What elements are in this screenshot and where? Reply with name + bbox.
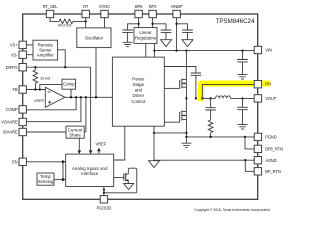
svg-text:and: and [135, 88, 143, 93]
ground agnd triangle [149, 161, 160, 168]
pin BP_RTN [254, 168, 281, 175]
wire VS+ pin to amplifier [27, 44, 34, 46]
wire VS- pin to amplifier [27, 54, 34, 56]
wire ISHARE to current share [27, 131, 67, 133]
wire rail to current share right [84, 97, 86, 132]
wire pgood drain loop [104, 168, 137, 193]
svg-text:Amplifier: Amplifier [37, 52, 55, 57]
svg-text:VREF: VREF [34, 98, 45, 103]
arrow EN into analog inputs [62, 160, 66, 164]
wire pgnd rail right to PGND pin [186, 136, 254, 138]
node pgood junction upper [103, 189, 105, 191]
node VIN cap on rail [241, 49, 243, 51]
wire VREF stub [98, 151, 100, 155]
wire FB net [27, 89, 46, 91]
pin FB [12, 86, 26, 93]
svg-text:Driver: Driver [132, 93, 144, 98]
svg-text:ISHARE: ISHARE [3, 130, 18, 135]
analog inputs and interface block [66, 154, 114, 186]
pin AGND [254, 157, 277, 164]
node switch bootstrap [195, 97, 197, 99]
svg-text:BP6: BP6 [135, 4, 143, 9]
wire EN to analog inputs [27, 161, 64, 163]
capacitor bootstrap [191, 73, 201, 98]
svg-text:PGOOD: PGOOD [96, 206, 111, 211]
node rail current share right [85, 96, 87, 98]
pin PH [254, 81, 271, 88]
ground output cap [238, 125, 248, 129]
wire power stage down to agnd rail [153, 126, 155, 160]
wire FB to comparator [40, 85, 62, 90]
svg-text:COMP: COMP [6, 107, 18, 112]
pin EN [12, 158, 26, 165]
node RT junction [85, 20, 87, 22]
node switch PH riser [201, 97, 203, 99]
node low-side source pgnd [185, 136, 187, 138]
svg-text:VS+: VS+ [10, 43, 18, 48]
wire BP3 pin down to linear regulators [152, 18, 154, 28]
svg-text:RT_SEL: RT_SEL [43, 4, 59, 9]
oscillator block [77, 28, 111, 48]
node PGND BP6_RTN branch [244, 136, 246, 138]
wire EN to temp node [62, 162, 64, 180]
wire power stage bottom to analog inputs [114, 126, 125, 160]
node snubber ground [209, 136, 211, 138]
svg-text:RT: RT [83, 4, 89, 9]
wire RT pin down to oscillator [85, 18, 87, 28]
power stage and driver control block [112, 57, 164, 126]
arrow DIFFO into analog inputs [89, 150, 93, 154]
wire BP6 pin down to linear regulators [138, 18, 140, 28]
resistor 40.2 kOhm [58, 19, 73, 28]
wire SYNC pin down to oscillator [104, 18, 106, 28]
pin SYNC [99, 4, 110, 18]
node DIFFO amplifier [64, 66, 66, 68]
pin BP3 [149, 4, 157, 18]
arrow VREF up [97, 148, 101, 152]
wire DIFFO net [27, 66, 91, 68]
svg-text:VS-: VS- [11, 52, 18, 57]
wire current share to analog inputs [78, 138, 80, 151]
svg-text:Power: Power [132, 76, 145, 81]
arrow current share into analog inputs [78, 150, 82, 154]
svg-text:DIFFO: DIFFO [6, 65, 19, 70]
wire analog to PGOOD pin [103, 187, 105, 196]
wire BP6 branch to cap [128, 24, 139, 30]
wire BP6_RTN to PGND [245, 137, 254, 149]
pin DIFFO [6, 64, 27, 71]
svg-text:BP3: BP3 [149, 4, 157, 9]
pin VSHARE [1, 118, 26, 125]
transistor Q3 PGOOD open drain FET [124, 173, 129, 184]
pin BP6_RTN [254, 145, 283, 152]
pin VS+ [10, 41, 26, 48]
pin VS- [11, 51, 26, 58]
pin COMP [6, 106, 27, 113]
capacitor output [237, 98, 248, 124]
wire agnd rail [154, 159, 254, 161]
svg-text:SYNC: SYNC [99, 4, 110, 9]
capacitor VIN [237, 51, 248, 75]
wire BOOT to bootstrap cap [164, 67, 196, 74]
pin VINBP [171, 4, 183, 18]
ground BP6 cap [123, 42, 133, 46]
pin BP6 [135, 4, 143, 18]
pin VOUT [254, 95, 277, 102]
node AGND BP_RTN branch [244, 159, 246, 161]
svg-text:BP6_RTN: BP6_RTN [265, 147, 283, 152]
module boundary TPSM846C24 [23, 14, 258, 199]
svg-text:AGND: AGND [265, 158, 277, 163]
node VINBP on rail [175, 49, 177, 51]
svg-text:Comp: Comp [63, 82, 75, 87]
svg-text:Sensing: Sensing [38, 179, 54, 184]
wire temp sensing output [54, 179, 63, 181]
node FET drain on rail [185, 49, 187, 51]
comparator block Comp [62, 79, 76, 89]
transistor Q1 high-side FET [180, 51, 187, 99]
ground VINBP cap triangle [182, 40, 193, 47]
wire resistor to RT node [73, 20, 86, 22]
wire low-side gate [164, 121, 179, 123]
svg-text:VINBP: VINBP [171, 4, 183, 9]
op-amp U1 error amplifier [34, 87, 65, 107]
wire linear regulators to power stage left [145, 43, 147, 57]
ground VIN cap [238, 75, 248, 79]
node BP6 branch [137, 23, 139, 25]
node FB comparator branch [39, 88, 41, 90]
node pgnd rail left end [153, 132, 155, 134]
wire amplifier output to DIFFO [58, 50, 66, 67]
node rail oscillator [95, 96, 97, 98]
capacitor BP6 [122, 30, 133, 42]
wire BP3 branch to cap [153, 24, 166, 30]
svg-text:Interface: Interface [81, 171, 99, 176]
node FB resistor [34, 88, 36, 90]
node EN branch [62, 161, 64, 163]
node VIN rail left end [153, 49, 155, 51]
capacitor VINBP [182, 30, 193, 40]
node DIFFO resistor [34, 66, 36, 68]
svg-text:BP_RTN: BP_RTN [265, 169, 281, 174]
svg-text:Stage: Stage [133, 82, 145, 87]
svg-text:VREF: VREF [96, 141, 107, 146]
wire VSHARE riser [27, 97, 81, 121]
wire COMP pin riser [27, 97, 77, 110]
pin RT [82, 4, 89, 18]
linear regulators block [134, 28, 157, 44]
node BP3 branch [151, 23, 153, 25]
wire comp rail op-amp output [65, 96, 112, 98]
capacitor snubber [205, 98, 215, 120]
pin PGOOD [96, 196, 111, 211]
svg-text:VIN: VIN [265, 48, 272, 53]
wire pgnd rail left [154, 132, 186, 134]
node output cap tap [241, 97, 243, 99]
node switch FET source [185, 97, 187, 99]
node rail COMP pin [75, 96, 77, 98]
ground pgood triangle [124, 184, 134, 190]
svg-text:Control: Control [131, 99, 145, 104]
svg-text:VOUT: VOUT [265, 96, 277, 101]
wire RT_SEL to resistor [50, 18, 59, 22]
node rail VSHARE [80, 96, 82, 98]
resistor snubber [208, 120, 213, 137]
node rail comp block [70, 96, 72, 98]
wire high-side gate [164, 87, 179, 89]
pin ISHARE [3, 128, 27, 135]
node VINBP branch [175, 23, 177, 25]
wire BP_RTN to AGND [245, 160, 254, 171]
svg-text:FB: FB [12, 87, 17, 92]
ground BP3 cap triangle [161, 40, 172, 47]
PH net highlight [201, 84, 271, 102]
current share block [66, 126, 84, 138]
svg-text:VSHARE: VSHARE [1, 120, 18, 125]
node pgood junction lower [103, 192, 105, 194]
node snubber tap [209, 97, 211, 99]
svg-text:EN: EN [12, 160, 18, 165]
wire switch node rail with inductor L1 [202, 96, 254, 99]
ground power stage source [181, 137, 191, 148]
wire analog to pgood FET gate [114, 177, 124, 179]
arrow temp into analog inputs [62, 178, 66, 182]
transistor Q2 low-side FET [180, 98, 187, 136]
svg-text:TPSM846C24: TPSM846C24 [216, 18, 255, 25]
wire oscillator to comp rail [95, 48, 97, 98]
temp sensing block [37, 173, 54, 185]
wire VINBP pin down to VIN rail [176, 18, 178, 51]
resistor 10 kOhm [33, 67, 50, 89]
svg-text:Oscillator: Oscillator [85, 36, 104, 41]
wire VINBP branch to cap [177, 24, 188, 30]
svg-text:40.2 kΩ: 40.2 kΩ [58, 23, 72, 28]
capacitor BP3 [161, 30, 172, 40]
svg-text:Regulators: Regulators [135, 35, 157, 40]
wire VIN rail [154, 50, 254, 52]
wire comp to rail [70, 89, 72, 97]
remote sense amplifier block [33, 40, 58, 60]
pin VIN [254, 46, 272, 53]
svg-text:Copyright © 2018, Texas Instru: Copyright © 2018, Texas Instruments Inco… [194, 208, 270, 212]
wire PH to pin [202, 84, 254, 98]
svg-text:10 kΩ: 10 kΩ [40, 75, 50, 80]
pin PGND [254, 133, 277, 140]
wire linear regulators to power stage right [153, 43, 155, 57]
pin RT_SEL [43, 4, 59, 18]
svg-text:PH: PH [265, 82, 271, 87]
node low-side source left branch [185, 132, 187, 134]
svg-text:Share: Share [69, 132, 81, 137]
svg-text:PGND: PGND [265, 135, 277, 140]
node temp sensing junction [62, 178, 64, 180]
wire DIFFO down to analog inputs [90, 67, 92, 151]
